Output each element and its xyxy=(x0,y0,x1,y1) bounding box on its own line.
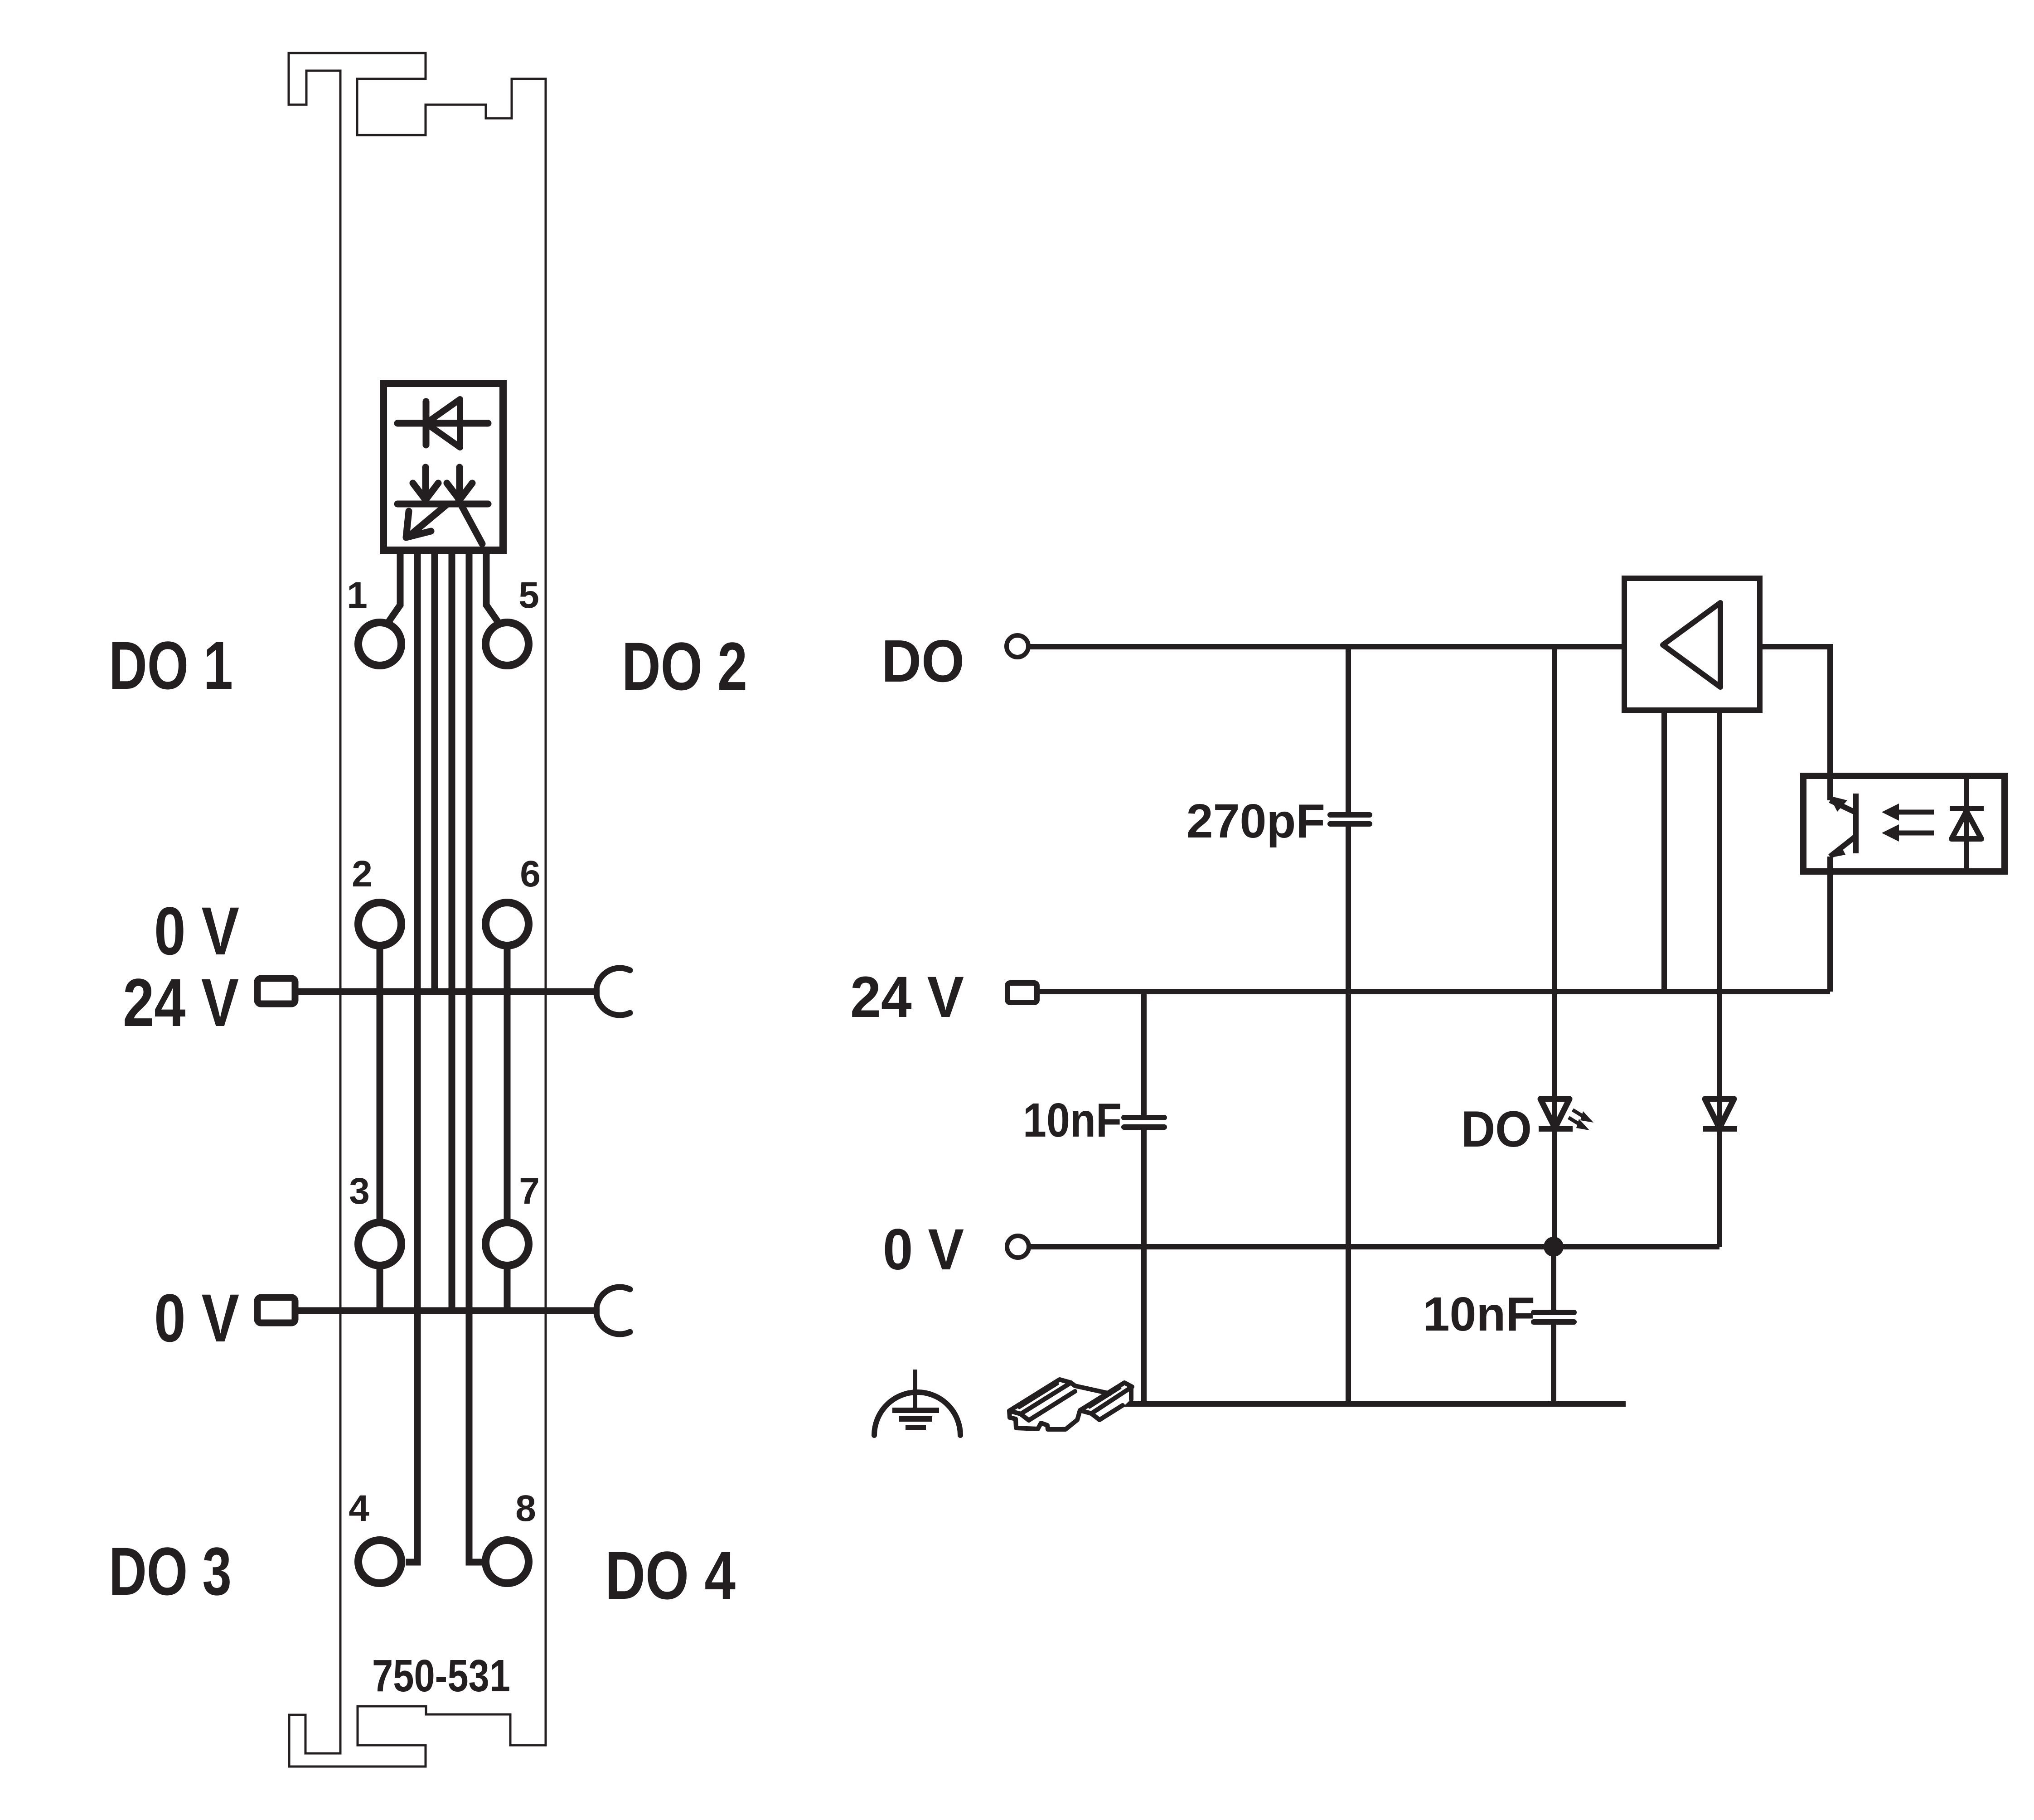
label 750-531 xyxy=(372,1651,510,1701)
0V power jumper rail xyxy=(257,1287,630,1334)
diode freewheel xyxy=(1703,1099,1737,1129)
svg-text:24 V: 24 V xyxy=(123,964,239,1041)
capacitor 10nF lower xyxy=(1534,1312,1574,1322)
wire 270pF branch lower to ground rail xyxy=(1346,824,1351,1404)
driver box xyxy=(1624,578,1760,710)
svg-text:0 V: 0 V xyxy=(154,893,239,969)
node DO terminal circle xyxy=(1007,635,1028,657)
wire junction to 10nF xyxy=(1551,1247,1556,1312)
svg-text:750-531: 750-531 xyxy=(372,1651,510,1701)
svg-text:5: 5 xyxy=(518,575,539,616)
svg-text:0 V: 0 V xyxy=(883,1217,964,1282)
svg-text:DO: DO xyxy=(1461,1101,1532,1157)
svg-text:DO 1: DO 1 xyxy=(109,627,233,703)
wire pin6 to pin7 xyxy=(504,924,511,1244)
wire 24V to 10nF upper xyxy=(1141,992,1147,1118)
pin 3 terminal circle xyxy=(358,1223,402,1266)
ground rail xyxy=(1113,1401,1626,1407)
label 270pF xyxy=(1186,794,1325,848)
pin number 6 xyxy=(520,853,541,895)
svg-text:24 V: 24 V xyxy=(850,965,964,1030)
pin number 2 xyxy=(352,853,373,895)
module outline 750-531 side profile xyxy=(289,53,546,1767)
wire pin3 to 0V rail xyxy=(377,1244,383,1311)
svg-text:4: 4 xyxy=(349,1488,369,1529)
svg-text:DO 2: DO 2 xyxy=(622,628,747,704)
pin 4 terminal circle xyxy=(358,1540,402,1583)
svg-text:2: 2 xyxy=(352,853,373,895)
wire driver to freewheel diode xyxy=(1717,710,1722,1247)
svg-text:6: 6 xyxy=(520,853,541,895)
node 0V terminal circle xyxy=(1007,1236,1029,1258)
label DO 2 xyxy=(622,628,747,704)
pin 7 terminal circle xyxy=(486,1223,529,1266)
label 10nF lower xyxy=(1423,1288,1535,1341)
pin 5 terminal circle xyxy=(486,623,529,666)
diode symbol in box xyxy=(397,399,488,447)
wire 10nF lower to ground rail xyxy=(1551,1322,1556,1404)
driver triangle xyxy=(1663,603,1720,687)
pin number 7 xyxy=(519,1171,540,1212)
wire driver output to optocoupler xyxy=(1760,647,1830,776)
label 0 V lower xyxy=(154,1280,239,1356)
node junction dot 0V xyxy=(1544,1237,1564,1257)
wire box to pin4 xyxy=(406,550,417,1562)
pin number 8 xyxy=(515,1488,536,1529)
wire optocoupler emitter to 24V xyxy=(1827,857,1833,992)
svg-text:7: 7 xyxy=(519,1171,540,1212)
wire DO LED branch xyxy=(1552,647,1557,1247)
wire box to pin8 xyxy=(469,550,482,1562)
optocoupler light arrows xyxy=(1882,804,1934,842)
wire box to 0V rail xyxy=(449,550,455,1311)
svg-text:1: 1 xyxy=(347,575,368,616)
svg-text:3: 3 xyxy=(349,1171,370,1212)
label 0 V right schematic xyxy=(883,1217,964,1282)
pin 6 terminal circle xyxy=(486,903,529,946)
wire 24V line right xyxy=(1037,989,1830,994)
wire pin7 to 0V rail xyxy=(504,1244,511,1311)
label DO at LED xyxy=(1461,1101,1532,1157)
capacitor 270pF xyxy=(1330,815,1370,824)
wire driver left stub to 24V xyxy=(1661,710,1667,992)
wire stub box to pin5 xyxy=(486,550,499,623)
capacitor 10nF upper xyxy=(1124,1118,1164,1127)
wire 10nF upper to ground rail xyxy=(1141,1127,1147,1404)
optocoupler LED xyxy=(1950,776,1984,871)
symbol box U1 xyxy=(383,383,503,550)
svg-text:DO: DO xyxy=(881,628,964,694)
label 0 V upper xyxy=(154,893,239,969)
label DO right schematic xyxy=(881,628,964,694)
pin number 5 xyxy=(518,575,539,616)
label DO 1 xyxy=(109,627,233,703)
wire stub box to pin1 xyxy=(388,550,400,623)
svg-text:8: 8 xyxy=(515,1488,536,1529)
pin number 4 xyxy=(349,1488,369,1529)
optocoupler box xyxy=(1803,776,2005,871)
wire pin2 to pin3 xyxy=(377,924,383,1244)
24V flag terminal right xyxy=(1007,983,1037,1002)
label 24 V left xyxy=(123,964,239,1041)
label 24 V right schematic xyxy=(850,965,964,1030)
svg-text:0 V: 0 V xyxy=(154,1280,239,1356)
svg-text:DO 3: DO 3 xyxy=(109,1533,232,1609)
earth ground symbol xyxy=(874,1370,960,1435)
label DO 4 xyxy=(605,1537,736,1613)
wire DO line xyxy=(1028,644,1624,649)
label DO 3 xyxy=(109,1533,232,1609)
svg-text:10nF: 10nF xyxy=(1023,1094,1122,1147)
pin number 3 xyxy=(349,1171,370,1212)
24V power jumper rail xyxy=(257,968,630,1015)
pin number 1 xyxy=(347,575,368,616)
svg-text:270pF: 270pF xyxy=(1186,794,1325,848)
pin 1 terminal circle xyxy=(358,623,402,666)
LED DO indicator xyxy=(1539,1099,1593,1130)
label 10nF upper xyxy=(1023,1094,1122,1147)
pin 2 terminal circle xyxy=(358,903,402,946)
svg-text:10nF: 10nF xyxy=(1423,1288,1535,1341)
wire 270pF branch upper xyxy=(1346,647,1351,815)
wire 0V line right xyxy=(1029,1244,1719,1249)
pin 8 terminal circle xyxy=(486,1540,529,1583)
optocoupler phototransistor xyxy=(1829,776,1856,858)
svg-text:DO 4: DO 4 xyxy=(605,1537,736,1613)
output transistor symbol in box xyxy=(397,467,488,544)
wire box to 24V rail xyxy=(431,550,438,992)
DIN rail symbol xyxy=(1002,1373,1138,1434)
